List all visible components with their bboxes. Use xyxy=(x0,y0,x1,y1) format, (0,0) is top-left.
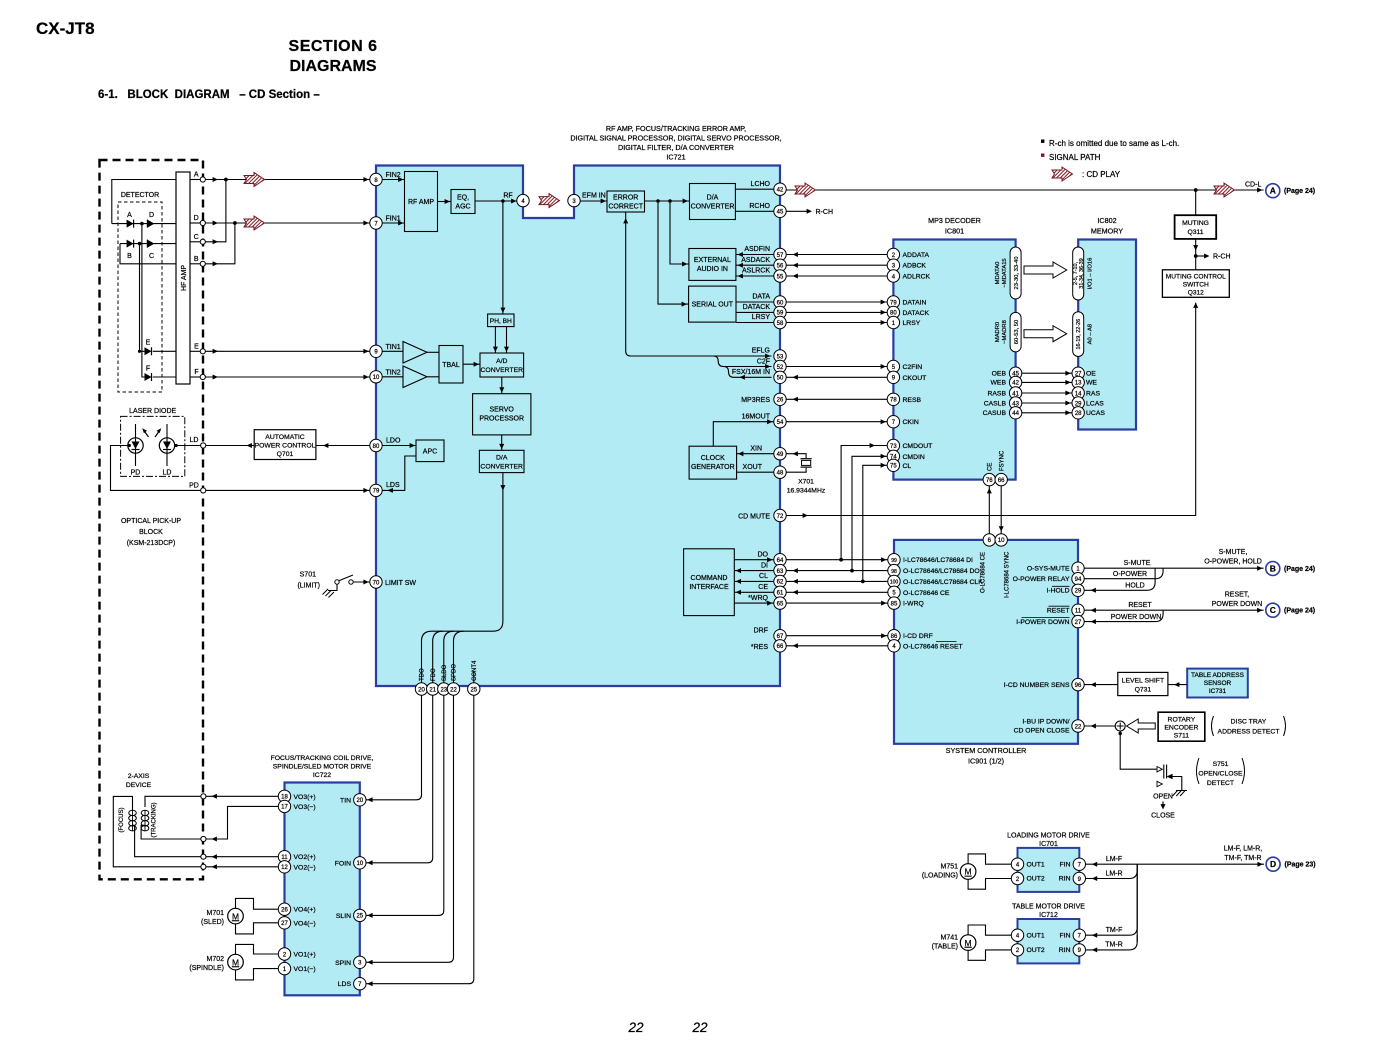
pin 50 FSX xyxy=(774,371,786,383)
svg-text:16MOUT: 16MOUT xyxy=(742,413,771,420)
svg-text:18: 18 xyxy=(281,795,288,801)
EQ AGC block xyxy=(451,190,475,214)
svg-text:LDS: LDS xyxy=(386,482,400,489)
wire CASLB43 to LCAS29 xyxy=(984,400,1105,407)
svg-text:SERVO: SERVO xyxy=(490,407,515,414)
svg-text:INTERFACE: INTERFACE xyxy=(689,584,729,591)
external audio in block xyxy=(689,249,736,281)
svg-text:LEVEL SHIFT: LEVEL SHIFT xyxy=(1122,678,1164,685)
PH BH block xyxy=(488,314,514,327)
svg-text:64: 64 xyxy=(777,558,784,564)
svg-text:LM-F, LM-R,: LM-F, LM-R, xyxy=(1224,846,1263,853)
svg-text:D: D xyxy=(1270,859,1276,869)
pin 59 DATACK xyxy=(774,306,786,318)
MP3 decoder IC801 block xyxy=(893,240,1015,480)
svg-text:100: 100 xyxy=(890,580,899,586)
automatic power control Q701 box xyxy=(254,430,316,460)
photodiode A xyxy=(127,212,134,228)
wire LD to node xyxy=(175,444,201,447)
svg-text:LRSY: LRSY xyxy=(752,314,771,321)
svg-text:ADLRCK: ADLRCK xyxy=(903,274,931,281)
svg-text:SECTION 6: SECTION 6 xyxy=(289,38,378,55)
pin 61 CE xyxy=(774,586,786,598)
pin 3 EFM in xyxy=(568,194,580,206)
svg-text:48: 48 xyxy=(777,471,784,477)
pin 45 RCHO xyxy=(774,205,786,217)
pin 62 CL xyxy=(774,575,786,587)
svg-text:73: 73 xyxy=(890,444,897,450)
wire S-MUTE bus to B xyxy=(1084,560,1263,593)
junction row1 xyxy=(140,222,144,226)
svg-text:MDATA0: MDATA0 xyxy=(995,262,1001,285)
wire CE5 to CE61 xyxy=(786,590,888,595)
node VO2+ circle xyxy=(201,854,206,859)
wire clock generator XIN pin49 xyxy=(737,445,774,456)
svg-text:I-CD NUMBER SENS: I-CD NUMBER SENS xyxy=(1004,682,1070,689)
svg-text:WEB: WEB xyxy=(991,380,1007,387)
svg-text:55: 55 xyxy=(777,274,784,280)
wire branch to external audio in xyxy=(670,201,689,267)
svg-text:DATACK: DATACK xyxy=(903,310,930,317)
node LD circle xyxy=(190,437,206,448)
wire M702 to pins 2 1 xyxy=(236,944,279,980)
wire FDO pin21 to FOIN xyxy=(366,695,433,865)
svg-text:CLOCK: CLOCK xyxy=(701,455,725,462)
IC801 right pins xyxy=(1009,367,1021,419)
wire A row to pin 8 xyxy=(205,177,369,182)
svg-text:(TABLE): (TABLE) xyxy=(932,944,958,951)
svg-text:OUT1: OUT1 xyxy=(1027,933,1045,940)
svg-text:63: 63 xyxy=(777,569,784,575)
wire pin 80 to Q701 xyxy=(316,443,370,448)
wire IC731 to level shift xyxy=(1168,682,1187,687)
svg-text:EQ,: EQ, xyxy=(457,195,469,202)
svg-text:MEMORY: MEMORY xyxy=(1091,227,1123,236)
A0-A8 stadium xyxy=(1073,312,1094,357)
node E output circle xyxy=(190,343,205,354)
memory address bus arrow xyxy=(1024,326,1067,342)
loading motor M751 xyxy=(922,864,976,880)
pin 54 16MOUT xyxy=(774,416,786,428)
svg-text:SLIN: SLIN xyxy=(336,913,351,920)
wire clock generator to pin54 16MOUT xyxy=(713,413,774,446)
wire CL pin62 xyxy=(734,573,774,584)
switch S701 xyxy=(297,572,353,591)
ground at S701 xyxy=(323,589,335,598)
svg-text:I-WRQ: I-WRQ xyxy=(903,601,924,608)
laser diode LD xyxy=(159,424,174,477)
D/A converter block top xyxy=(690,184,736,220)
svg-text:RF AMP, FOCUS/TRACKING ERROR A: RF AMP, FOCUS/TRACKING ERROR AMP, xyxy=(606,124,746,133)
photodiode B xyxy=(127,240,134,260)
svg-text:OUT1: OUT1 xyxy=(1027,862,1045,869)
svg-text:FOCUS/TRACKING COIL DRIVE,: FOCUS/TRACKING COIL DRIVE, xyxy=(271,755,374,762)
svg-text:AUDIO IN: AUDIO IN xyxy=(697,266,728,273)
svg-text:TDO: TDO xyxy=(420,668,426,681)
wire CKOUT9 to pin50 xyxy=(786,375,887,380)
svg-text:12: 12 xyxy=(281,865,288,871)
svg-text:FIN: FIN xyxy=(1060,862,1071,869)
svg-text:TABLE MOTOR DRIVE: TABLE MOTOR DRIVE xyxy=(1012,904,1085,911)
wire LCHO pin42 to CD-L xyxy=(786,188,1263,193)
svg-text:98: 98 xyxy=(891,569,897,575)
svg-text:LIMIT SW: LIMIT SW xyxy=(385,580,416,587)
svg-text:S701: S701 xyxy=(300,572,316,579)
wire branch to serial out xyxy=(658,201,689,307)
svg-text:XOUT: XOUT xyxy=(743,464,763,471)
wire LM-R xyxy=(1086,864,1138,881)
wire A bracket to HF amp xyxy=(112,180,176,224)
wire CD-L junction to muting xyxy=(1195,190,1197,215)
wire RF junction down to PH BH xyxy=(500,201,505,314)
svg-text:MP3 DECODER: MP3 DECODER xyxy=(928,216,981,225)
svg-text:COMMAND: COMMAND xyxy=(691,575,728,582)
svg-text:CONVERTER: CONVERTER xyxy=(481,367,524,374)
svg-text:M: M xyxy=(232,957,239,967)
wire CLK100 to CL62 and CL75 xyxy=(786,463,888,584)
node C output circle xyxy=(190,234,205,245)
svg-text:53: 53 xyxy=(777,354,784,360)
svg-text:CASUB: CASUB xyxy=(983,410,1007,417)
wire CASUB44 to UCAS28 xyxy=(983,410,1106,417)
svg-text:MUTING: MUTING xyxy=(1182,220,1209,227)
photodiode F xyxy=(145,366,152,382)
wire RF amp to EQ AGC xyxy=(438,199,452,204)
svg-text:DIAGRAMS: DIAGRAMS xyxy=(289,58,376,75)
pin 57 ASDFIN xyxy=(774,248,786,260)
summing node xyxy=(1115,721,1125,731)
svg-text:TBAL: TBAL xyxy=(442,362,460,369)
IC802 left pins xyxy=(1072,367,1084,419)
memory IC802 block xyxy=(1078,240,1136,430)
svg-text:O-LC78646 RESET: O-LC78646 RESET xyxy=(903,643,963,650)
svg-text:LASER DIODE: LASER DIODE xyxy=(129,408,176,415)
svg-text:78: 78 xyxy=(890,398,897,404)
svg-text:O-LC78646 CE: O-LC78646 CE xyxy=(903,590,950,597)
note R-ch omitted xyxy=(1041,140,1044,143)
svg-text:17: 17 xyxy=(281,805,288,811)
pin 56 ASDACK xyxy=(774,259,786,271)
svg-text:IC802: IC802 xyxy=(1097,216,1116,225)
svg-text:ADBCK: ADBCK xyxy=(903,263,927,270)
svg-text:(LIMIT): (LIMIT) xyxy=(297,583,320,590)
IC701 title xyxy=(1007,833,1090,848)
svg-text:10: 10 xyxy=(998,538,1005,544)
legend CD PLAY arrow xyxy=(1052,167,1073,181)
wire pin52 to C2FIN5 xyxy=(786,364,887,369)
svg-text:CORRECT: CORRECT xyxy=(608,204,643,211)
svg-text:VO2(−): VO2(−) xyxy=(294,864,316,871)
2-axis device label xyxy=(126,773,152,789)
svg-text:70: 70 xyxy=(373,580,380,586)
svg-text:EFM IN: EFM IN xyxy=(582,193,606,200)
wire command interface DO pin64 xyxy=(734,551,774,562)
pin 8 FIN2 xyxy=(370,172,401,186)
svg-text:IC731: IC731 xyxy=(1209,688,1227,695)
svg-text:AUTOMATIC: AUTOMATIC xyxy=(265,434,304,441)
open close labels xyxy=(1151,794,1175,820)
wire DRF67 to DRF86 xyxy=(786,633,888,638)
hollow arrow rotary to sum xyxy=(1127,719,1156,733)
svg-text:CD OPEN CLOSE: CD OPEN CLOSE xyxy=(1014,727,1070,734)
svg-text:67: 67 xyxy=(777,634,784,640)
photodiode D xyxy=(147,212,154,228)
clock generator block xyxy=(689,446,737,479)
wire RASB41 to RAS14 xyxy=(987,390,1100,397)
wire pin57 to IC801 pin2 xyxy=(786,252,887,257)
svg-text:PD: PD xyxy=(131,470,141,477)
wire CONT4 stub xyxy=(473,671,475,683)
sysc right pin labels xyxy=(1004,565,1070,734)
svg-text:−MDATA15: −MDATA15 xyxy=(1002,258,1008,287)
wire PD photodiode loop xyxy=(111,444,201,491)
svg-text:M702: M702 xyxy=(206,956,224,963)
IC722 block xyxy=(285,783,360,996)
svg-text:66: 66 xyxy=(998,478,1005,484)
svg-text:23-30, 33-40: 23-30, 33-40 xyxy=(1014,257,1020,290)
sysc right pins xyxy=(1072,562,1084,732)
svg-text:HF AMP: HF AMP xyxy=(181,265,188,291)
svg-text:99: 99 xyxy=(891,558,897,564)
svg-text:26: 26 xyxy=(777,398,784,404)
pin 52 C2F xyxy=(774,360,786,372)
svg-text:LDS: LDS xyxy=(338,981,352,988)
svg-text:D/A: D/A xyxy=(496,455,508,462)
svg-text:RESET: RESET xyxy=(1128,602,1152,609)
wire pin80 LDO to APC xyxy=(382,437,416,448)
svg-text:FDO: FDO xyxy=(431,668,437,681)
svg-text:RCHO: RCHO xyxy=(749,203,770,210)
wire F to HF amp xyxy=(153,376,176,378)
wire APC to pin79 LDS xyxy=(382,456,416,493)
svg-text:45: 45 xyxy=(777,210,784,216)
svg-text:CL: CL xyxy=(759,573,768,580)
level shift Q731 box xyxy=(1118,672,1168,695)
svg-text:25: 25 xyxy=(470,687,477,693)
wire pin7 to RF amp xyxy=(382,221,404,226)
svg-text:B: B xyxy=(127,253,132,260)
svg-text:C: C xyxy=(149,253,154,260)
memory data bus arrow xyxy=(1024,262,1067,278)
svg-text:R-CH: R-CH xyxy=(816,209,834,216)
svg-text:LM-F: LM-F xyxy=(1106,856,1122,863)
note SIGNAL PATH xyxy=(1041,154,1044,157)
svg-text:(Page 24): (Page 24) xyxy=(1284,608,1315,615)
pin 21 FDO xyxy=(427,683,439,695)
svg-text:*RES: *RES xyxy=(751,644,768,651)
svg-text:ADDRESS DETECT: ADDRESS DETECT xyxy=(1218,729,1280,736)
MDATA stadium xyxy=(995,247,1021,299)
svg-text:IC721: IC721 xyxy=(666,153,685,162)
wire WRQ pin65 xyxy=(734,595,774,606)
svg-text:60-53, 50: 60-53, 50 xyxy=(1014,320,1020,345)
wire DO98 to DI63 and CMDIN xyxy=(786,454,888,573)
svg-text:86: 86 xyxy=(891,634,898,640)
buffer amp TIN1 xyxy=(382,342,427,364)
svg-text:OUT2: OUT2 xyxy=(1027,876,1045,883)
error correct block xyxy=(607,191,645,212)
wire M751 to IC701 pins 4 2 xyxy=(968,854,1011,889)
wire B bracket to HF amp xyxy=(120,244,176,264)
svg-text:I-POWER DOWN: I-POWER DOWN xyxy=(1016,619,1069,626)
svg-text:ASDACK: ASDACK xyxy=(741,257,770,264)
svg-text:TM-F: TM-F xyxy=(1106,927,1123,934)
signal path arrow after pin42 xyxy=(795,183,816,197)
wire RESB78 to pin26 xyxy=(786,397,887,402)
svg-text:I-LC78684 SYNC: I-LC78684 SYNC xyxy=(1005,551,1011,598)
pin 72 CD MUTE xyxy=(774,509,786,521)
svg-text:LRSY: LRSY xyxy=(903,320,921,327)
wire C row joining A xyxy=(205,180,226,245)
svg-text:ENCODER: ENCODER xyxy=(1164,725,1198,732)
svg-text:DIGITAL SIGNAL PROCESSOR, DIGI: DIGITAL SIGNAL PROCESSOR, DIGITAL SERVO … xyxy=(570,134,781,143)
svg-text:OPTICAL PICK-UP: OPTICAL PICK-UP xyxy=(121,518,181,525)
pin 9 TIN1 xyxy=(370,344,401,357)
RF amp block xyxy=(405,172,438,232)
svg-text:ASLRCK: ASLRCK xyxy=(742,268,770,275)
node VO3+ circle xyxy=(201,794,206,799)
svg-text:(Page 24): (Page 24) xyxy=(1284,566,1315,573)
ground at S751 xyxy=(1173,791,1188,797)
wire to diode F xyxy=(142,224,145,377)
svg-text:(FOCUS): (FOCUS) xyxy=(119,808,125,833)
svg-text:Q312: Q312 xyxy=(1188,289,1204,296)
svg-text:M: M xyxy=(232,911,239,921)
svg-text:(Page 24): (Page 24) xyxy=(1284,188,1315,195)
command interface block xyxy=(684,549,735,616)
svg-text:CLOSE: CLOSE xyxy=(1151,813,1175,820)
svg-text:ASDFIN: ASDFIN xyxy=(744,246,770,253)
svg-text:75: 75 xyxy=(890,464,897,470)
tracking coil xyxy=(141,803,157,838)
svg-text:SPIN: SPIN xyxy=(335,960,351,967)
svg-text:R-ch is omitted due to same as: R-ch is omitted due to same as L-ch. xyxy=(1049,139,1179,148)
svg-text:DATA: DATA xyxy=(752,294,770,301)
svg-text:A: A xyxy=(127,212,132,219)
svg-text:61: 61 xyxy=(777,591,784,597)
wire TDO pin20 to TIN xyxy=(366,695,421,802)
svg-text:TIN: TIN xyxy=(340,797,351,804)
svg-text:RIN: RIN xyxy=(1059,876,1071,883)
svg-text:ROTARY: ROTARY xyxy=(1168,717,1196,724)
wire E row to pin 9 xyxy=(205,349,369,354)
svg-text:LCHO: LCHO xyxy=(751,181,771,188)
wire detector row1 A-D xyxy=(112,223,176,225)
wire VO3+ pin18 to tracking coil xyxy=(145,794,278,807)
svg-text:62: 62 xyxy=(777,580,784,586)
svg-text:22: 22 xyxy=(627,1020,644,1035)
wire LM-F xyxy=(1086,856,1138,867)
svg-text:79: 79 xyxy=(373,489,380,495)
svg-text:O-LC78646/LC78684 CLK: O-LC78646/LC78684 CLK xyxy=(903,579,983,586)
signal path arrow pin4 to pin3 xyxy=(539,194,560,208)
svg-text:23: 23 xyxy=(440,687,447,693)
pin 42 LCHO xyxy=(774,183,786,195)
wire FSYNC66 to sysc pin10 xyxy=(999,486,1004,534)
IC721 main block outline xyxy=(376,166,780,687)
light emission arrows xyxy=(142,428,161,437)
svg-text:O-POWER, HOLD: O-POWER, HOLD xyxy=(1204,559,1262,566)
svg-text:FSYNC: FSYNC xyxy=(999,450,1005,471)
svg-text:M701: M701 xyxy=(206,910,224,917)
svg-text:D: D xyxy=(149,212,154,219)
svg-text:X701: X701 xyxy=(798,479,814,486)
IC712 pins xyxy=(1011,929,1085,956)
optical pick-up block label xyxy=(121,518,181,547)
IC801 bottom pins CE FSYNC xyxy=(983,450,1007,486)
svg-text:42: 42 xyxy=(1012,381,1019,387)
svg-text:VO3(−): VO3(−) xyxy=(294,804,316,811)
svg-text:72: 72 xyxy=(777,514,784,520)
wire detector row2 B-C xyxy=(120,243,176,245)
svg-text:OEB: OEB xyxy=(992,371,1007,378)
svg-text:CONVERTER: CONVERTER xyxy=(480,464,523,471)
pin 49 XIN xyxy=(774,448,786,460)
node VO2- circle xyxy=(201,864,206,869)
svg-text:IC701: IC701 xyxy=(1039,841,1058,848)
page ref B xyxy=(1266,562,1315,576)
pin 22 SPDO xyxy=(447,683,459,695)
svg-text:CONT4: CONT4 xyxy=(472,660,478,681)
svg-text:CX-JT8: CX-JT8 xyxy=(36,19,95,38)
svg-text:56: 56 xyxy=(777,264,784,270)
wire motor bus to D xyxy=(1137,862,1264,942)
svg-text:E: E xyxy=(194,343,199,350)
svg-text:OPEN/CLOSE: OPEN/CLOSE xyxy=(1198,771,1243,778)
svg-text:29: 29 xyxy=(1075,589,1082,595)
pin 10 TIN2 xyxy=(370,370,401,383)
disc tray address detect note xyxy=(1212,716,1286,736)
svg-text:96: 96 xyxy=(1075,683,1082,689)
svg-text:ADDATA: ADDATA xyxy=(903,252,930,259)
wire SLDO pin23 to SLIN xyxy=(366,695,444,918)
D/A converter block bottom xyxy=(479,435,524,473)
svg-text:85: 85 xyxy=(891,601,898,607)
pin 25 CONT4 xyxy=(468,683,480,695)
focus coil xyxy=(119,808,136,833)
svg-text:D/A: D/A xyxy=(707,195,719,202)
system controller IC901 block xyxy=(894,540,1078,744)
svg-text:D: D xyxy=(194,215,199,222)
TDO FDO SLDO SPDO CONT4 rotated labels xyxy=(420,660,478,681)
svg-text:CE: CE xyxy=(988,463,994,471)
pin 48 XOUT xyxy=(774,466,786,478)
pin 79 LDS xyxy=(370,484,382,496)
A/D converter block xyxy=(463,353,524,377)
wire CD MUTE to muting control xyxy=(786,303,1198,519)
svg-text:O-SYS-MUTE: O-SYS-MUTE xyxy=(1027,565,1070,572)
wire D row to pin 7 xyxy=(205,221,369,226)
serial out block xyxy=(689,286,736,322)
wire muting to switch with R-CH branch xyxy=(1193,239,1230,270)
svg-text:WE: WE xyxy=(1086,380,1097,387)
wire M701 to pins 26 27 xyxy=(236,898,279,934)
svg-text:10: 10 xyxy=(373,375,380,381)
IC721 title xyxy=(570,124,781,162)
pin 58 LRSY xyxy=(774,316,786,328)
pin 66 RES xyxy=(774,640,786,652)
svg-text:CE: CE xyxy=(758,584,768,591)
svg-text:DRF: DRF xyxy=(754,627,768,634)
wire TM-F xyxy=(1086,864,1138,938)
svg-text:B: B xyxy=(1270,564,1276,574)
IC712 title xyxy=(1012,904,1085,919)
wire WEB42 to WE13 xyxy=(991,380,1098,387)
svg-text:SWITCH: SWITCH xyxy=(1183,281,1209,288)
signal path arrow row D xyxy=(244,216,265,230)
svg-text:OUT2: OUT2 xyxy=(1027,947,1045,954)
svg-text:SENSOR: SENSOR xyxy=(1204,680,1232,687)
